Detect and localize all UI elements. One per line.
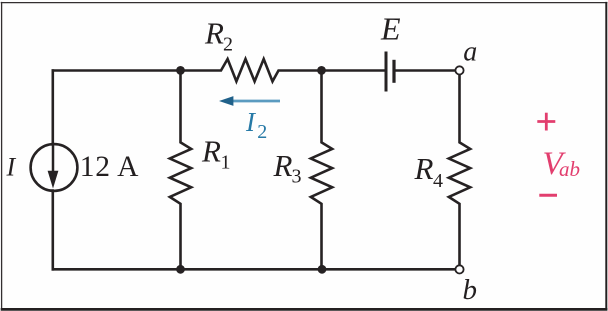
svg-text:R: R <box>204 16 224 51</box>
svg-text:a: a <box>463 37 477 68</box>
svg-text:R: R <box>414 151 434 186</box>
svg-text:ab: ab <box>559 157 580 181</box>
svg-text:R: R <box>273 148 293 183</box>
svg-text:I: I <box>6 153 17 182</box>
svg-text:E: E <box>380 11 401 47</box>
svg-text:12 A: 12 A <box>80 151 139 183</box>
svg-text:3: 3 <box>292 166 302 188</box>
svg-text:2: 2 <box>223 34 233 56</box>
svg-text:R: R <box>201 134 221 169</box>
svg-text:b: b <box>463 274 478 306</box>
svg-text:2: 2 <box>257 121 267 143</box>
svg-text:1: 1 <box>221 152 231 174</box>
svg-text:4: 4 <box>433 170 443 192</box>
svg-text:I: I <box>245 107 257 137</box>
